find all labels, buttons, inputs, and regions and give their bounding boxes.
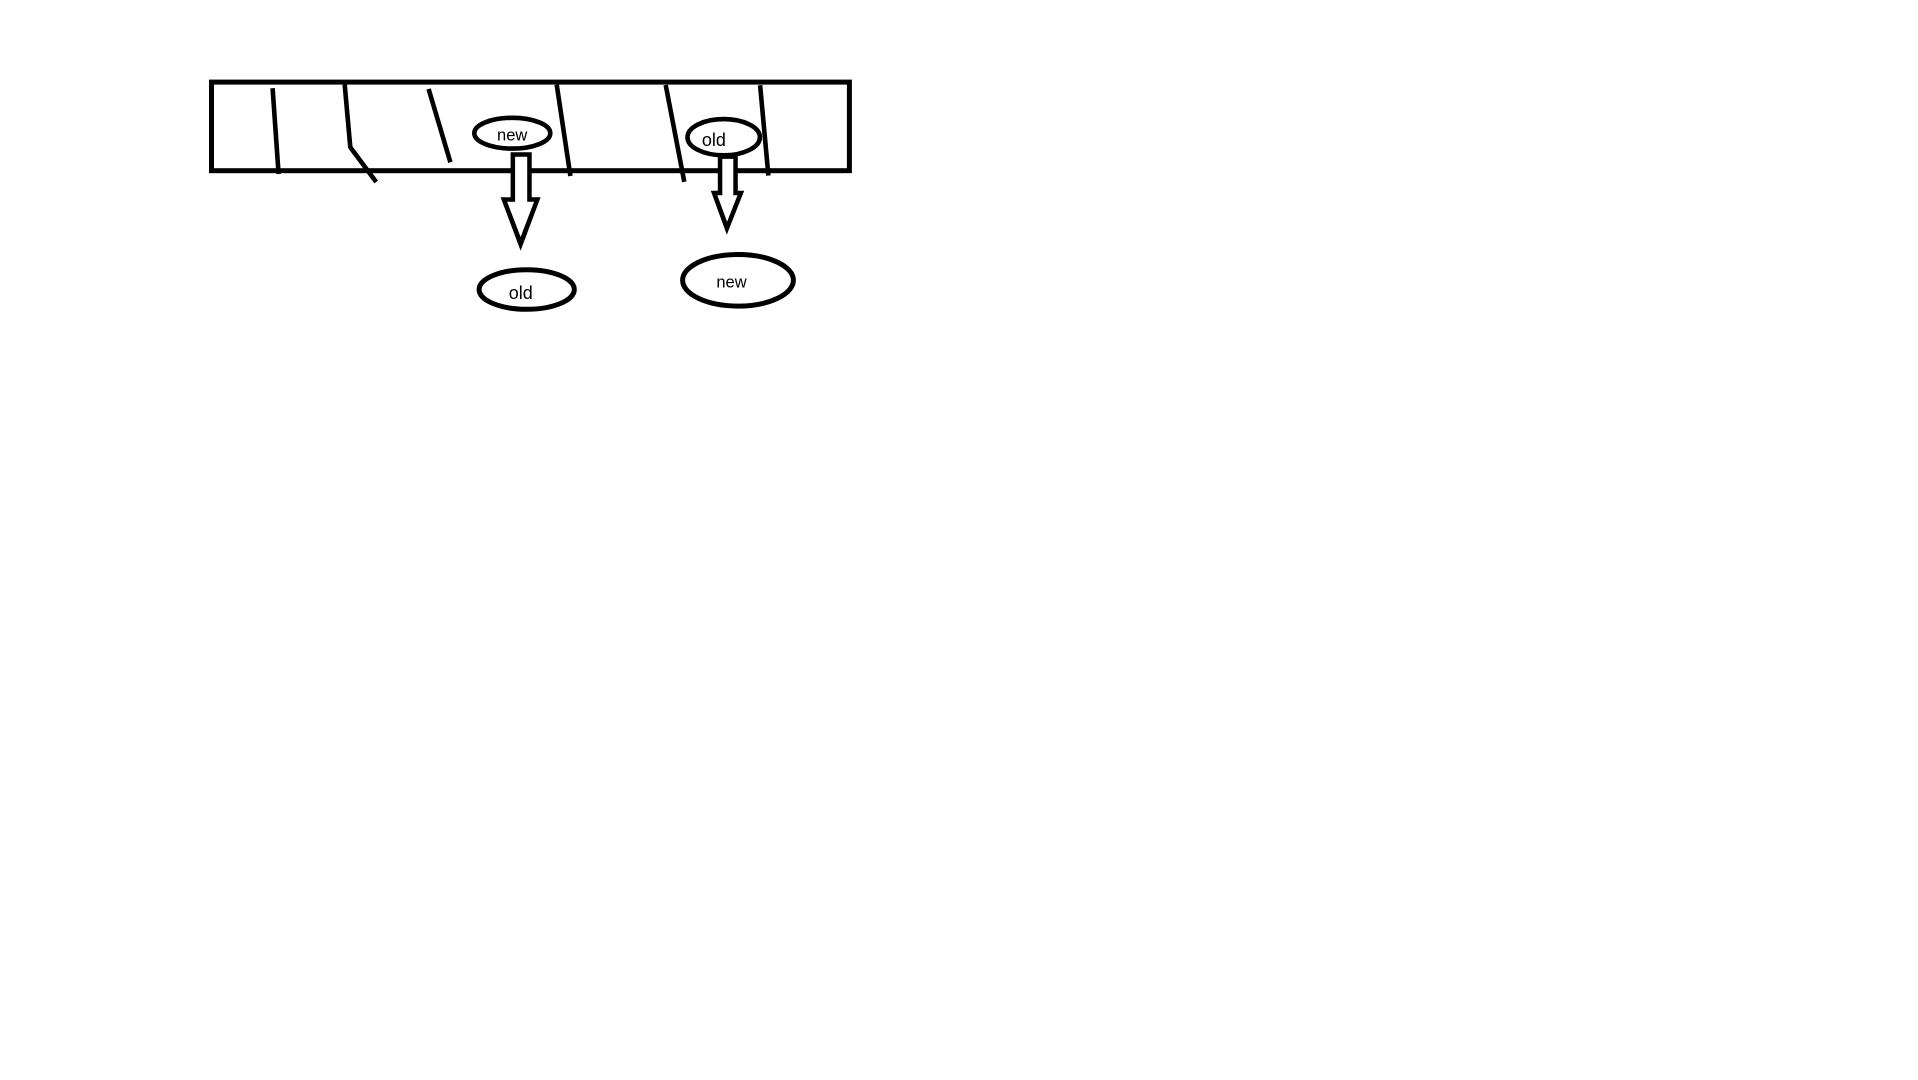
- tick line 4 (crosses bottom border): [557, 85, 571, 176]
- block arrow 1 (below top "new" ellipse) outer: [501, 152, 541, 251]
- svg-text:new: new: [497, 127, 527, 145]
- tick line 3: [429, 89, 451, 162]
- tick line 1: [273, 88, 279, 174]
- tick line 2 (bent, crosses bottom border): [345, 85, 377, 182]
- svg-text:old: old: [702, 130, 726, 150]
- band rectangle: [212, 82, 850, 171]
- tick line 5 (crosses bottom border): [666, 85, 685, 182]
- ellipse "old" (top, inside band): [688, 119, 760, 155]
- block arrow 2 (below top "old" ellipse) outer: [711, 154, 744, 234]
- ellipse "old" (bottom target): [479, 270, 574, 310]
- ellipse "new" (top, inside band): [474, 118, 550, 149]
- svg-text:old: old: [509, 283, 533, 303]
- svg-text:new: new: [716, 274, 746, 292]
- tick line 6: [760, 85, 768, 175]
- ellipse "new" (bottom target): [683, 254, 794, 306]
- block arrow 1 inner white: [507, 157, 534, 237]
- block arrow 2 inner white: [717, 159, 737, 222]
